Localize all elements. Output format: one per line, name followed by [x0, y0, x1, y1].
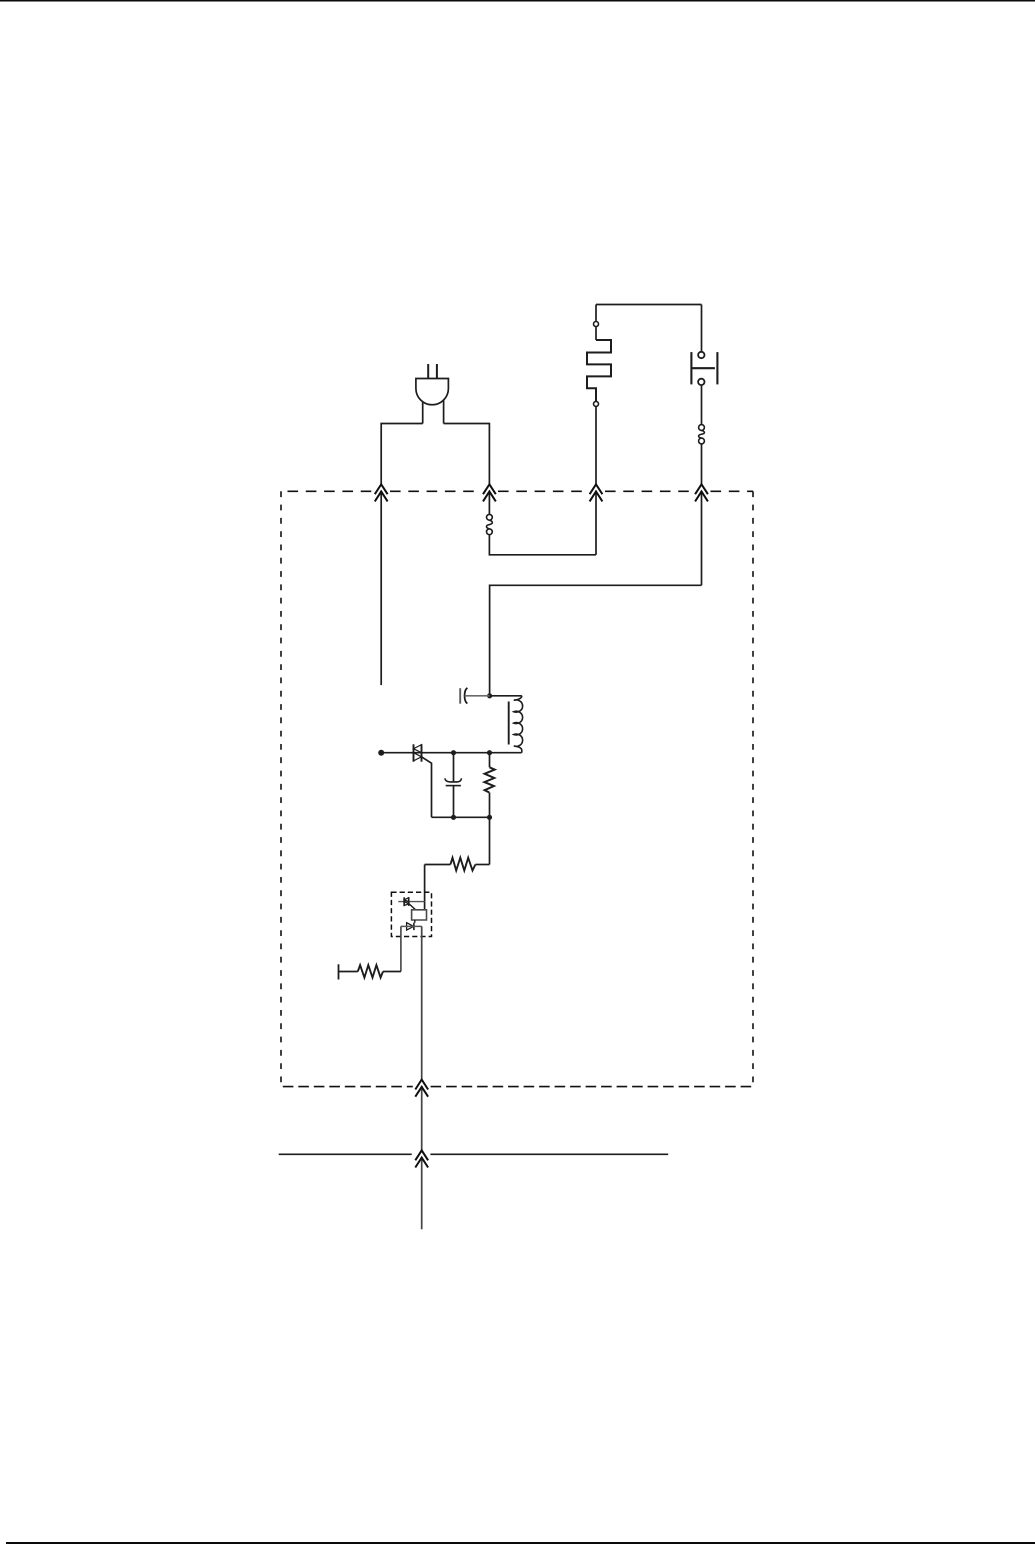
heating element (top) — [587, 305, 611, 492]
wire: down from lower rail — [489, 817, 491, 864]
trigger block body (rectangle) — [412, 910, 427, 920]
resistor R2 (horizontal) — [425, 858, 490, 871]
node: rail left dead-end dot — [378, 750, 384, 756]
chassis line (solid, lower) — [279, 1153, 412, 1155]
connector arrow (heater lead into module) — [590, 484, 603, 501]
node: lower rail junction at R1 — [487, 815, 492, 820]
wire: triac gate — [422, 757, 432, 818]
inline connector (circle-squiggle-circle) on plug right lead — [486, 514, 492, 534]
wire: main rail — [383, 752, 522, 754]
trigger device boundary (small dashed box) — [391, 892, 431, 936]
wire: connector down and right to heater column — [489, 535, 596, 555]
inline connector on switch lead — [699, 425, 705, 444]
connector arrow (switch lead into module) — [695, 484, 708, 501]
wire: plug left lead to module — [381, 424, 423, 686]
triac Q1 — [414, 744, 422, 761]
connector arrow (plug right lead into module) — [483, 484, 496, 501]
wire: switch lead down into module — [701, 444, 703, 585]
node: rail junction at resistor R1 — [487, 750, 492, 755]
terminal bar at R3 left end — [338, 964, 340, 979]
wire: heater top to switch top — [596, 304, 702, 306]
wire: trigger block left lead down — [400, 926, 402, 971]
connector arrow (module bottom exit) — [415, 1080, 428, 1097]
diode D2 (inside trigger block) — [401, 923, 422, 930]
node: rail junction at capacitor C2 — [451, 750, 456, 755]
connector arrow (at chassis line) — [415, 1150, 428, 1167]
wire: lower rail — [432, 816, 490, 818]
wire: body to diode D2 — [414, 920, 416, 923]
wire: heater column below dashed border — [595, 491, 597, 555]
resistor R3 (horizontal, left) — [339, 964, 401, 979]
capacitor C1 (spark suppressor, left of transformer) — [460, 688, 467, 704]
AC power plug P1 — [416, 364, 449, 424]
page bottom rule (border) — [6, 1542, 1035, 1544]
control module boundary (big dashed box) — [281, 491, 753, 1086]
diac D1 (inside trigger block) — [398, 897, 424, 910]
transformer core line — [508, 702, 510, 745]
thermal switch (top right) — [691, 305, 717, 425]
resistor R1 (vertical) — [484, 753, 494, 818]
node: transformer top junction — [487, 693, 492, 698]
transformer winding L1 — [509, 696, 523, 753]
wire: R2 down into trigger block — [424, 865, 426, 910]
wire gaps at connector arrows — [381, 485, 701, 1156]
connector arrow (plug left lead into module) — [375, 484, 388, 501]
wire: C1 to coil top — [465, 695, 490, 697]
wire: trigger block right lead down (long, to page bottom arrow) — [421, 926, 423, 1229]
capacitor C2 — [445, 753, 462, 818]
wire: plug right lead down — [444, 424, 490, 515]
node: lower rail junction at C2 — [451, 815, 456, 820]
page top bar (border) — [0, 0, 1035, 2]
wire: horizontal feed to transformer column — [490, 585, 702, 696]
